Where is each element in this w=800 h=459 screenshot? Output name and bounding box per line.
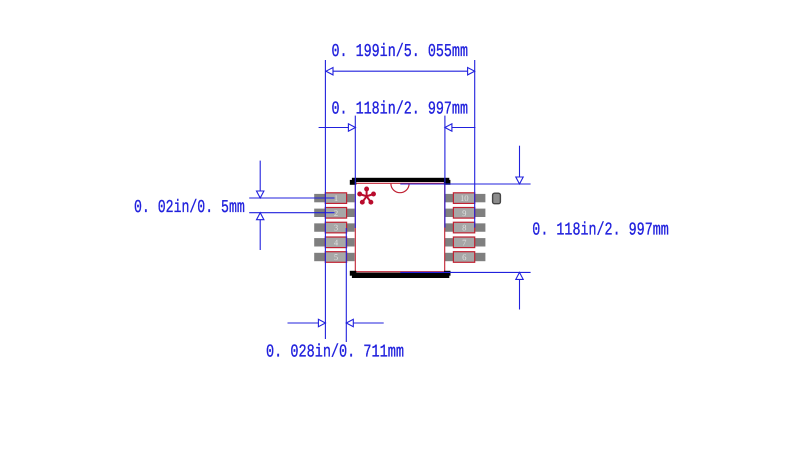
wire: left pins group — [314, 194, 354, 261]
svg-text:10: 10 — [460, 193, 469, 203]
pin 4 lead — [314, 238, 354, 246]
pin 6 lead — [445, 253, 485, 261]
arrow left of overall width — [326, 68, 333, 75]
pin 1 lead — [314, 194, 354, 202]
wire: body bottom edge line to dim — [400, 271, 530, 273]
svg-text:0. 199in/5. 055mm: 0. 199in/5. 055mm — [332, 42, 469, 62]
wire: left extension line overall/pad-length — [324, 60, 326, 339]
pin1 index notch arc — [391, 184, 409, 193]
arrowheads (open) — [257, 68, 524, 327]
svg-text:5: 5 — [334, 252, 338, 262]
wire: right extension line overall — [474, 60, 476, 228]
wire: body right extension line — [444, 116, 446, 228]
pad 10 — [453, 193, 474, 204]
wire: pad length right arrow line — [346, 322, 383, 324]
pad 7 — [453, 237, 474, 248]
pad 3 — [325, 222, 346, 233]
svg-text:2: 2 — [334, 208, 338, 218]
wire: body height vertical top — [519, 146, 521, 184]
bottom body edge black bar — [350, 271, 451, 278]
dimension lines (blue) — [249, 60, 530, 342]
arrow body height up — [516, 272, 523, 279]
pin 2 lead — [314, 209, 354, 217]
svg-text:0. 028in/0. 711mm: 0. 028in/0. 711mm — [266, 343, 404, 363]
arrow pad length left — [318, 319, 325, 326]
wire: pitch dim vertical bottom — [259, 213, 261, 250]
svg-text:7: 7 — [462, 237, 467, 247]
svg-text:6: 6 — [462, 252, 467, 262]
wire: right pins group — [445, 194, 485, 261]
wire: pitch line to pin2 — [249, 212, 334, 214]
svg-text:3: 3 — [334, 223, 338, 233]
pin 8 lead — [445, 223, 485, 231]
wire: body top edge line to dim — [400, 183, 530, 185]
svg-text:4: 4 — [334, 237, 339, 247]
arrow pitch down — [257, 191, 264, 198]
wire: overall width dim line — [326, 70, 475, 72]
arrow body width left — [348, 124, 355, 131]
pad 9 — [453, 208, 474, 219]
arrow right of overall width — [468, 68, 475, 75]
pin 7 lead — [445, 238, 485, 246]
pad 4 — [325, 237, 346, 248]
arrow body height down — [516, 177, 523, 184]
pin 3 lead — [314, 223, 354, 231]
svg-text:9: 9 — [462, 208, 466, 218]
svg-text:1: 1 — [334, 193, 338, 203]
arrow pitch up — [257, 213, 264, 220]
wire: pad length right extension — [345, 228, 347, 342]
arrow body width right — [445, 124, 452, 131]
svg-text:0. 118in/2. 997mm: 0. 118in/2. 997mm — [332, 100, 469, 120]
pin 10 lead — [445, 194, 485, 202]
wire: body width right arrow line — [445, 127, 476, 129]
pin 9 lead — [445, 209, 485, 217]
pad 1 — [325, 193, 346, 204]
wire: body left extension line — [354, 116, 356, 228]
body outline U1 — [355, 183, 444, 271]
pad 2 — [325, 208, 346, 219]
polarity marker dot — [493, 193, 501, 204]
svg-text:8: 8 — [462, 223, 467, 233]
pin 5 lead — [314, 253, 354, 261]
pad 5 — [325, 252, 346, 263]
wire: pitch line to pin1 — [249, 197, 334, 199]
pad 6 — [453, 252, 474, 263]
pad 8 — [453, 222, 474, 233]
svg-text:0. 118in/2. 997mm: 0. 118in/2. 997mm — [532, 221, 669, 241]
wire: pitch dim vertical top — [259, 161, 261, 198]
wire: body width left arrow line — [319, 127, 356, 129]
wire: pad length left arrow line — [288, 322, 326, 324]
wire: body height vertical bottom — [519, 272, 521, 309]
arrow pad length right — [346, 319, 353, 326]
top body edge black bar — [350, 178, 451, 185]
svg-text:0. 02in/0. 5mm: 0. 02in/0. 5mm — [134, 198, 245, 218]
pin 1 marker asterisk — [358, 188, 375, 204]
